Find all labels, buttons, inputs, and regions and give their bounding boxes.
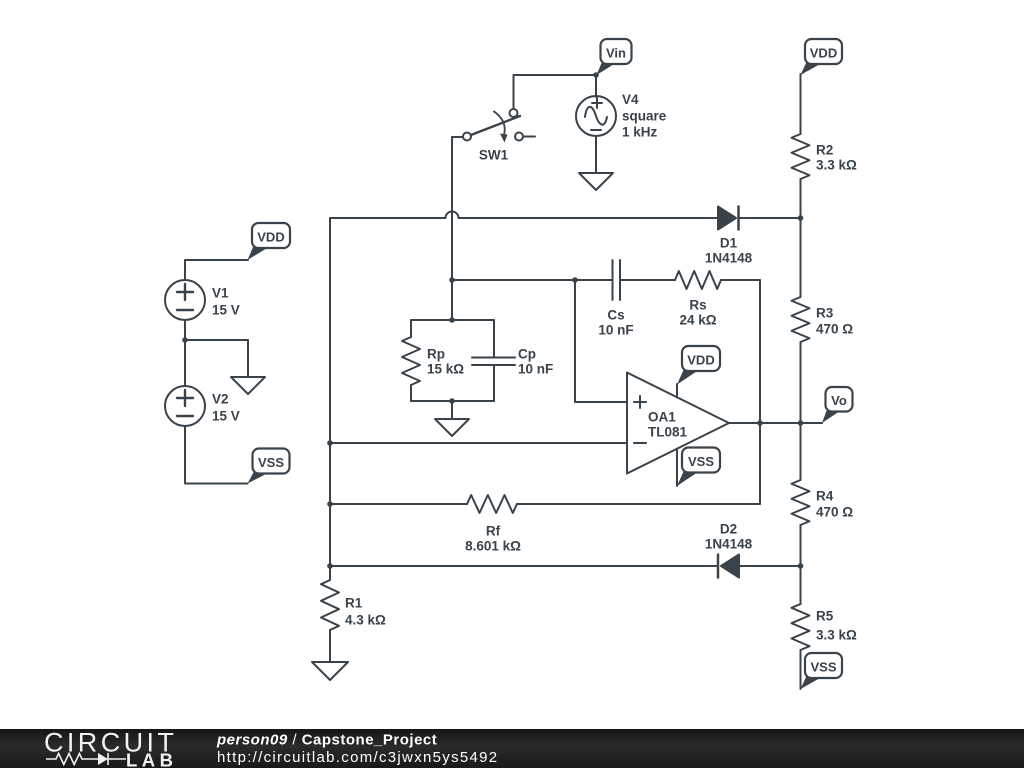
flag VDD top right: [801, 39, 843, 75]
label D1: [705, 236, 753, 266]
svg-text:TL081: TL081: [648, 425, 688, 440]
wire noninverting input: [575, 280, 627, 402]
V4 minus sign: [591, 129, 601, 131]
label R3: [816, 306, 853, 337]
label Rp: [427, 347, 464, 377]
wire left rail: [329, 218, 331, 566]
svg-text:Cs: Cs: [607, 308, 624, 323]
diode D1 cathode bar: [737, 207, 740, 230]
node Vin junction: [593, 72, 599, 78]
resistor Rp leads: [410, 320, 412, 401]
wire R5 to VSS flag: [800, 650, 802, 689]
flag Vin: [597, 39, 632, 75]
wire D2 to right rail: [739, 565, 801, 567]
svg-text:VSS: VSS: [688, 454, 714, 469]
label R1: [345, 596, 386, 628]
node output R3 R4: [798, 420, 804, 426]
wire V1 to V2: [184, 320, 186, 386]
wire Rp block to ground: [451, 401, 453, 419]
flag VSS left supply: [248, 449, 290, 484]
label R4: [816, 489, 853, 520]
ground below V4: [579, 173, 613, 190]
Rp Cp parallel block top rail: [411, 319, 494, 321]
ground below Rp block: [435, 419, 469, 436]
diode D2 cathode bar: [717, 555, 720, 578]
wire V4 bottom to ground: [595, 136, 597, 173]
svg-text:V1: V1: [212, 286, 229, 301]
svg-text:D2: D2: [720, 522, 737, 537]
op-amp OA1 triangle: [627, 373, 729, 474]
resistor R4 zigzag: [792, 480, 810, 525]
svg-text:OA1: OA1: [648, 410, 676, 425]
svg-text:VSS: VSS: [258, 455, 284, 470]
svg-text:VSS: VSS: [810, 659, 836, 674]
node D2 right rail: [798, 563, 804, 569]
switch SW1 top throw terminal: [510, 109, 518, 117]
svg-text:D1: D1: [720, 236, 738, 251]
resistor Rf zigzag: [467, 495, 517, 513]
node Rp block bottom: [449, 398, 455, 404]
node right rail top bus: [798, 215, 804, 221]
wire R3 to output node: [800, 342, 802, 480]
switch SW1 open throw terminal: [515, 133, 523, 141]
svg-text:Rf: Rf: [486, 524, 501, 539]
switch SW1 pole terminal: [463, 133, 471, 141]
node Rf junction: [327, 501, 333, 507]
resistor R2 zigzag: [792, 134, 810, 179]
capacitor Cs plates: [613, 260, 621, 300]
svg-text:VDD: VDD: [810, 45, 837, 60]
flag VDD left supply: [248, 223, 291, 260]
op-amp VSS pin: [676, 449, 678, 486]
svg-text:470 Ω: 470 Ω: [816, 322, 853, 337]
Rp Cp block bottom rail: [411, 400, 494, 402]
resistor R1 zigzag: [321, 580, 339, 630]
svg-text:SW1: SW1: [479, 148, 509, 163]
wire mid node to ground: [185, 340, 248, 377]
voltage source V1 circle: [165, 280, 205, 320]
wire op-amp output: [729, 422, 822, 424]
svg-text:1N4148: 1N4148: [705, 251, 753, 266]
svg-text:470 Ω: 470 Ω: [816, 505, 853, 520]
svg-text:15 kΩ: 15 kΩ: [427, 362, 464, 377]
svg-text:LAB: LAB: [126, 750, 178, 768]
svg-text:http://circuitlab.com/c3jwxn5y: http://circuitlab.com/c3jwxn5ys5492: [217, 749, 498, 766]
voltage source V4 circle: [576, 96, 616, 136]
svg-text:R4: R4: [816, 489, 834, 504]
wire R1 to ground: [329, 630, 331, 662]
svg-text:3.3 kΩ: 3.3 kΩ: [816, 158, 857, 173]
svg-text:3.3 kΩ: 3.3 kΩ: [816, 628, 857, 643]
ground below R1: [312, 662, 348, 680]
wire inverting input: [330, 442, 627, 444]
flag Vo: [822, 387, 853, 423]
label D2: [705, 522, 753, 552]
wire node to Cs left plate: [452, 279, 612, 281]
switch SW1 blade: [467, 116, 520, 137]
resistor Rp zigzag: [402, 337, 420, 385]
label V2: [212, 392, 240, 424]
svg-text:10 nF: 10 nF: [598, 323, 633, 338]
node inverting junction: [327, 440, 333, 446]
diode D1 triangle: [718, 207, 736, 230]
wire Vin horizontal to switch: [514, 75, 597, 110]
svg-text:square: square: [622, 109, 667, 124]
V1 minus sign: [177, 309, 193, 311]
label Cp: [518, 347, 553, 377]
op-amp VDD pin: [676, 384, 678, 398]
flag VSS bottom right: [801, 653, 843, 689]
label Rs: [679, 298, 716, 328]
svg-text:R3: R3: [816, 306, 834, 321]
svg-text:Vo: Vo: [831, 393, 847, 408]
V2 minus sign: [177, 415, 193, 417]
svg-text:Vin: Vin: [606, 45, 626, 60]
V1 plus sign: [177, 284, 193, 300]
flag VSS op-amp: [677, 448, 720, 487]
logo resistor-diode glyph: [46, 753, 126, 765]
label V4: [622, 92, 667, 140]
V2 plus sign: [177, 390, 193, 406]
node noninverting branch: [572, 277, 578, 283]
svg-text:1N4148: 1N4148: [705, 537, 753, 552]
svg-text:10 nF: 10 nF: [518, 362, 553, 377]
op-amp plus input mark: [634, 396, 646, 408]
wire Vin node to V4 top: [595, 75, 597, 97]
flag VDD op-amp: [677, 346, 720, 385]
node between V1 V2: [182, 337, 188, 343]
svg-text:Cp: Cp: [518, 347, 536, 362]
V4 plus sign: [592, 98, 602, 108]
svg-text:Rp: Rp: [427, 347, 445, 362]
svg-text:V4: V4: [622, 92, 639, 107]
svg-text:V2: V2: [212, 392, 229, 407]
svg-text:R5: R5: [816, 609, 834, 624]
ground mid supply: [231, 377, 265, 394]
capacitor Cp plates: [472, 358, 515, 366]
switch SW1 arc arrow: [494, 112, 505, 136]
label Cs: [598, 308, 633, 338]
svg-text:person09 / Capstone_Project: person09 / Capstone_Project: [216, 731, 437, 748]
label V1: [212, 286, 240, 318]
svg-text:VDD: VDD: [687, 352, 714, 367]
capacitor Cp leads: [493, 320, 495, 401]
wire V1 top to VDD flag: [185, 260, 248, 280]
node Rp block top: [449, 317, 455, 323]
wire to R1: [329, 566, 331, 580]
svg-text:R2: R2: [816, 143, 833, 158]
wire R2 to R3: [800, 179, 802, 297]
V4 sine glyph: [585, 107, 607, 125]
label OA1: [648, 410, 688, 440]
resistor Rs zigzag: [675, 271, 721, 289]
svg-text:VDD: VDD: [257, 229, 284, 244]
label Rf: [465, 524, 521, 554]
resistor R5 zigzag: [792, 604, 810, 650]
svg-text:15 V: 15 V: [212, 409, 240, 424]
svg-text:24 kΩ: 24 kΩ: [679, 313, 716, 328]
node at Cs branch: [449, 277, 455, 283]
wire top bus with hop: [330, 212, 718, 218]
wire V2 bottom to VSS flag: [185, 426, 248, 484]
wire Rs to feedback corner: [721, 279, 760, 281]
wire Rf left lead: [330, 503, 467, 505]
wire D2 anode lead: [330, 565, 718, 567]
svg-text:4.3 kΩ: 4.3 kΩ: [345, 613, 386, 628]
node feedback at output: [757, 420, 763, 426]
svg-text:Rs: Rs: [689, 298, 706, 313]
wire Rf right lead: [517, 503, 760, 505]
wire VDD to R2: [800, 74, 802, 134]
wire D1 to right rail: [739, 217, 801, 219]
svg-text:8.601 kΩ: 8.601 kΩ: [465, 539, 521, 554]
label R2: [816, 143, 857, 173]
wire R4 to D2 node: [800, 525, 802, 604]
resistor R3 zigzag: [792, 297, 810, 342]
wire switch down to Rp block (crosses bus with hop): [451, 137, 453, 320]
label R5: [816, 609, 857, 643]
diode D2 triangle: [721, 555, 739, 578]
wire Cs to Rs: [620, 279, 675, 281]
voltage source V2 circle: [165, 386, 205, 426]
node D2 R1 junction: [327, 563, 333, 569]
switch SW1 right stub wire: [523, 136, 535, 138]
wire feedback vertical: [759, 280, 761, 504]
svg-text:1 kHz: 1 kHz: [622, 125, 658, 140]
switch SW1 left stub wire: [452, 136, 463, 138]
svg-text:R1: R1: [345, 596, 363, 611]
op-amp minus input mark: [634, 442, 646, 444]
svg-text:15 V: 15 V: [212, 303, 240, 318]
